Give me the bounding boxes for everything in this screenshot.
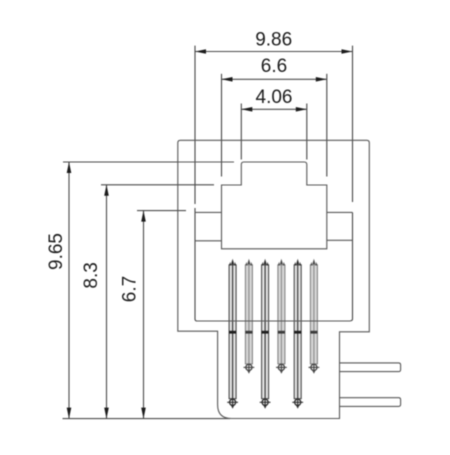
peg lower [340,398,401,407]
pin 1 (long) [227,259,238,409]
wire: 9.86 right extension / body feature line x=352.5 [352,46,354,202]
wire: ext bottom shared y=418.6 [63,418,231,420]
arrow 4.06 right [296,107,307,112]
right latch window bottom y=240.3 [327,239,353,241]
wire: ext 8.3 top y=184.8 [101,184,214,186]
right latch window top y=212.4 [327,211,353,213]
pin 6 (short) [309,259,320,374]
wire: dim line 6.6 [222,78,327,80]
svg-text:4.06: 4.06 [256,87,293,108]
svg-text:8.3: 8.3 [81,262,102,288]
body outer outline [178,140,369,418]
pin 4 (short) [276,259,287,374]
arrow 9.86 right [342,49,353,54]
arrow 9.86 left [195,49,206,54]
wire: dim line 4.06 [241,108,306,110]
left latch window top y=212.4 [195,211,222,213]
arrow 6.6 left [222,77,233,82]
svg-text:6.7: 6.7 [120,276,141,302]
arrow 8.3 top [104,185,109,196]
arrow 9.65 bottom [67,408,72,419]
wire: dim line 9.65 [68,162,70,419]
arrow 9.65 top [67,162,72,173]
arrow 6.6 right [316,77,327,82]
jack opening outline [222,162,327,249]
wire: 6.6 left extension x=221.5 [221,74,223,177]
arrow 4.06 left [241,107,252,112]
arrow 6.7 top [141,211,146,222]
wire: 4.06 left extension x=241.3 [240,104,242,160]
pin 3 (long) [260,259,271,409]
wire: 4.06 right extension x=306.8 [306,104,308,160]
left latch window bottom y=240.8 [195,240,222,242]
pin 5 (long) [292,259,303,409]
peg upper [340,363,401,372]
wire: 9.86 left extension / body feature line x=195 [194,46,196,204]
arrow 8.3 bottom [104,408,109,419]
pin 2 (short) [244,259,255,374]
wire: 6.6 right extension x=326.8 [326,74,328,177]
body front-face edge y=162 left of jack [178,161,234,163]
wire: ext 9.65 top y=162 [63,161,234,163]
wire: ext 6.7 top y=210.6 [137,210,186,212]
wire: dim line 6.7 [143,211,145,419]
wire: dim line 8.3 [106,185,108,419]
svg-text:9.65: 9.65 [46,233,67,270]
svg-text:6.6: 6.6 [261,56,287,77]
arrow 6.7 bottom [141,408,146,419]
wire: inner bottom line y=320.7 across pins [197,320,351,322]
svg-text:9.86: 9.86 [255,30,292,51]
wire: dim line 9.86 [195,51,353,53]
